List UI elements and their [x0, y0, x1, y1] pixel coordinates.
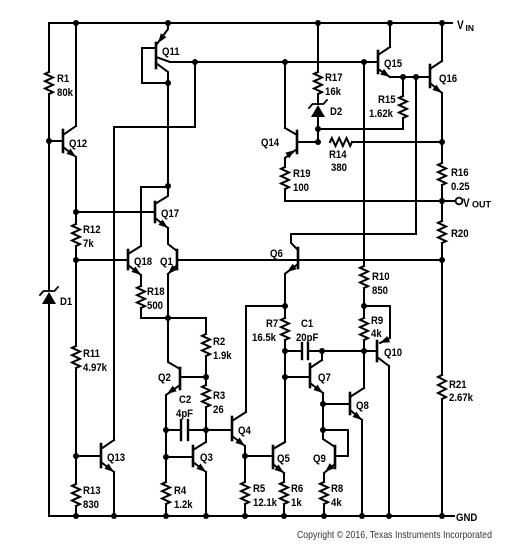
svg-text:Q2: Q2 [158, 372, 171, 384]
svg-text:R12: R12 [83, 224, 101, 236]
svg-text:C1: C1 [301, 318, 313, 330]
svg-text:26: 26 [213, 404, 224, 416]
svg-text:V: V [457, 20, 464, 32]
svg-text:IN: IN [466, 23, 475, 33]
svg-text:4k: 4k [371, 328, 382, 340]
svg-text:4.97k: 4.97k [83, 362, 108, 374]
svg-text:100: 100 [293, 182, 309, 194]
svg-text:Q3: Q3 [200, 452, 213, 464]
svg-text:830: 830 [83, 499, 99, 511]
svg-text:Q5: Q5 [277, 453, 290, 465]
svg-text:R5: R5 [253, 483, 265, 495]
svg-text:R3: R3 [213, 390, 225, 402]
svg-text:0.25: 0.25 [451, 181, 470, 193]
svg-text:R15: R15 [378, 94, 396, 106]
svg-text:R18: R18 [147, 286, 165, 298]
svg-text:R17: R17 [325, 72, 343, 84]
svg-text:Q16: Q16 [439, 73, 457, 85]
svg-text:R19: R19 [293, 168, 311, 180]
svg-text:7k: 7k [83, 238, 94, 250]
svg-text:R21: R21 [449, 379, 467, 391]
svg-text:R14: R14 [329, 149, 347, 161]
svg-text:R1: R1 [57, 73, 69, 85]
svg-text:C2: C2 [179, 394, 191, 406]
svg-text:1.9k: 1.9k [213, 350, 232, 362]
svg-text:R8: R8 [331, 483, 343, 495]
svg-text:R6: R6 [291, 483, 303, 495]
svg-text:D2: D2 [330, 106, 342, 118]
svg-text:380: 380 [331, 162, 347, 174]
svg-text:500: 500 [147, 300, 163, 312]
svg-text:4k: 4k [331, 497, 342, 509]
svg-text:V: V [463, 198, 470, 210]
svg-text:Q15: Q15 [384, 58, 402, 70]
svg-text:R11: R11 [83, 348, 100, 360]
svg-text:R7: R7 [266, 318, 278, 330]
svg-text:Q6: Q6 [270, 248, 283, 260]
svg-text:Q4: Q4 [238, 425, 252, 437]
svg-text:Q14: Q14 [261, 137, 280, 149]
svg-text:Q8: Q8 [356, 400, 369, 412]
svg-text:850: 850 [372, 285, 388, 297]
svg-text:D1: D1 [60, 296, 72, 308]
svg-text:R9: R9 [371, 315, 383, 327]
svg-text:GND: GND [456, 512, 477, 524]
svg-text:Q13: Q13 [107, 452, 125, 464]
svg-text:R4: R4 [174, 485, 187, 497]
svg-text:1.2k: 1.2k [174, 499, 193, 511]
svg-text:12.1k: 12.1k [253, 497, 278, 509]
svg-text:20pF: 20pF [296, 332, 319, 344]
svg-text:1.62k: 1.62k [369, 108, 394, 120]
svg-text:Q18: Q18 [134, 256, 152, 268]
svg-text:R20: R20 [451, 228, 469, 240]
svg-text:R13: R13 [83, 485, 101, 497]
svg-text:16k: 16k [325, 86, 342, 98]
svg-text:Q10: Q10 [384, 347, 402, 359]
svg-text:Q11: Q11 [162, 46, 180, 58]
svg-text:4pF: 4pF [176, 408, 193, 420]
svg-text:OUT: OUT [472, 200, 492, 210]
svg-text:Q7: Q7 [318, 372, 331, 384]
svg-text:R10: R10 [372, 271, 390, 283]
svg-text:16.5k: 16.5k [252, 332, 277, 344]
svg-text:Q12: Q12 [69, 138, 87, 150]
svg-text:1k: 1k [291, 497, 302, 509]
svg-text:R2: R2 [213, 336, 225, 348]
svg-text:Q1: Q1 [160, 256, 173, 268]
svg-text:R16: R16 [451, 167, 469, 179]
svg-text:Q9: Q9 [313, 453, 326, 465]
svg-text:2.67k: 2.67k [449, 392, 474, 404]
svg-text:80k: 80k [57, 87, 74, 99]
svg-text:Q17: Q17 [161, 208, 179, 220]
svg-text:Copyright © 2016, Texas Instru: Copyright © 2016, Texas Instruments Inco… [297, 530, 492, 541]
